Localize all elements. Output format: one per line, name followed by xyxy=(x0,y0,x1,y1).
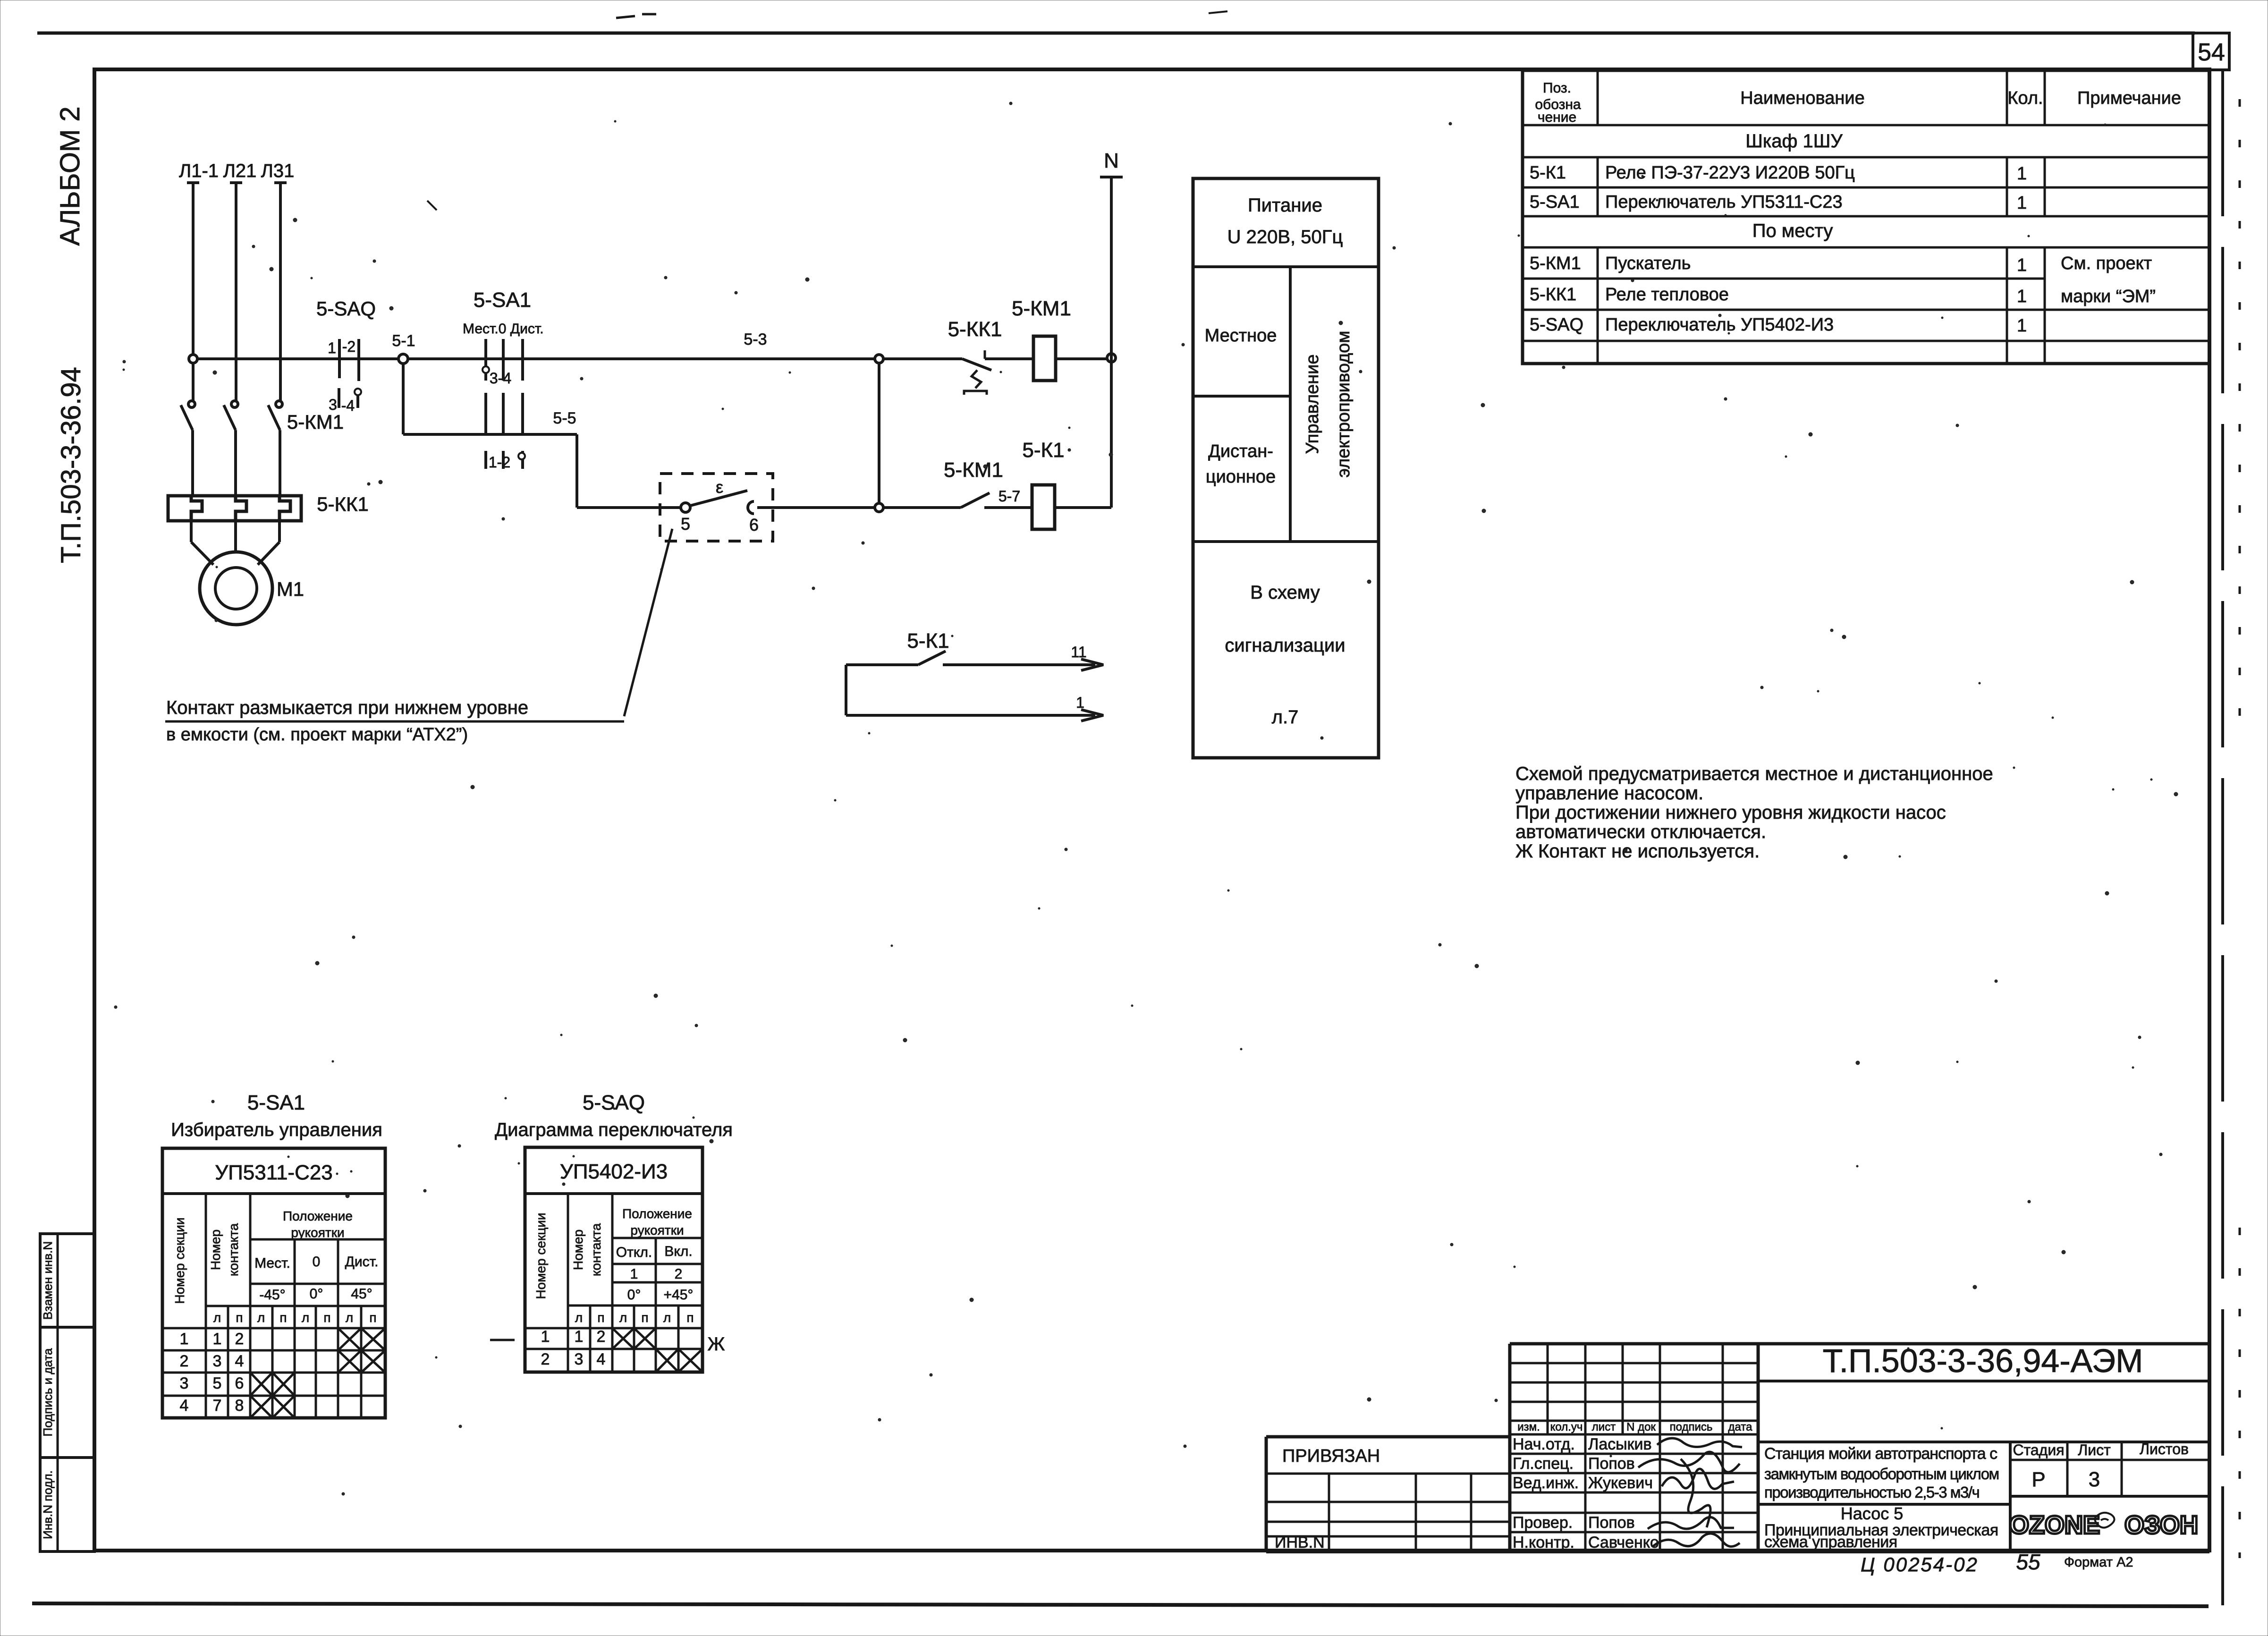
svg-text:л: л xyxy=(346,1310,353,1325)
svg-text:п: п xyxy=(323,1310,330,1325)
svg-text:Примечание: Примечание xyxy=(2077,88,2181,108)
arrow head 11 xyxy=(1081,659,1103,670)
svg-text:л: л xyxy=(575,1310,583,1325)
switch 5-SAQ contact 1-2 tick right xyxy=(357,339,360,381)
contactor 5-КМ1 blade Л1-1 xyxy=(181,405,193,430)
wire drop from node 5-1 xyxy=(402,364,405,434)
svg-text:N док: N док xyxy=(1626,1421,1656,1433)
svg-text:Подпись и дата: Подпись и дата xyxy=(41,1348,55,1437)
svg-text:Наименование: Наименование xyxy=(1740,88,1864,108)
svg-text:рукоятки: рукоятки xyxy=(291,1225,344,1240)
svg-text:6: 6 xyxy=(749,515,759,534)
svg-text:2: 2 xyxy=(235,1330,244,1348)
svg-text:Нач.отд.: Нач.отд. xyxy=(1513,1435,1575,1453)
arrow head 1 xyxy=(1081,710,1103,721)
logo scribble xyxy=(2095,1513,2114,1528)
svg-text:3: 3 xyxy=(2089,1468,2100,1491)
wire phase Л31 xyxy=(279,183,282,401)
svg-text:-45°: -45° xyxy=(259,1287,285,1303)
wire to 5-К1 contact xyxy=(846,663,918,666)
svg-text:п: п xyxy=(369,1310,376,1325)
svg-text:N: N xyxy=(1104,149,1119,172)
svg-text:1: 1 xyxy=(2017,193,2027,213)
svg-text:-2: -2 xyxy=(342,338,355,355)
svg-text:Гл.спец.: Гл.спец. xyxy=(1513,1455,1574,1473)
svg-text:1: 1 xyxy=(575,1328,584,1346)
svg-text:сигнализации: сигнализации xyxy=(1225,635,1345,656)
switch 5-SAQ contact 1-2 tick left xyxy=(338,339,341,378)
svg-text:1: 1 xyxy=(213,1330,222,1348)
stray scan mark xyxy=(616,16,635,18)
5-КК1 thermal release bracket xyxy=(964,391,987,395)
svg-text:автоматически отключается.: автоматически отключается. xyxy=(1515,822,1766,842)
svg-text:Пускатель: Пускатель xyxy=(1605,254,1691,273)
sheet top edge line xyxy=(37,32,2195,35)
svg-text:1: 1 xyxy=(2017,316,2027,336)
svg-text:Н.контр.: Н.контр. xyxy=(1513,1534,1574,1551)
svg-text:2: 2 xyxy=(675,1266,683,1282)
svg-text:Листов: Листов xyxy=(2140,1441,2189,1458)
5-SA1 section 1-2 tick upper xyxy=(521,393,524,435)
svg-text:5-SAQ: 5-SAQ xyxy=(316,297,376,320)
svg-text:п: п xyxy=(236,1310,243,1325)
5-КК1 NC blade xyxy=(962,359,991,370)
svg-text:5-SAQ: 5-SAQ xyxy=(583,1091,645,1114)
svg-text:Дист.: Дист. xyxy=(345,1254,379,1270)
svg-text:М1: М1 xyxy=(277,578,304,600)
svg-text:п: п xyxy=(686,1310,694,1325)
svg-text:1: 1 xyxy=(180,1330,189,1348)
svg-text:в емкости (см. проект марки “А: в емкости (см. проект марки “АТХ2”) xyxy=(166,725,468,745)
contactor 5-КМ1 blade Л31 xyxy=(268,405,280,430)
wire Л21 to thermal relay xyxy=(234,430,237,496)
svg-text:5-5: 5-5 xyxy=(553,409,576,427)
switch 5-SAQ contact 3-4 tick left xyxy=(338,388,340,408)
heater element xyxy=(236,496,246,521)
svg-text:л.7: л.7 xyxy=(1272,707,1299,728)
svg-text:Провер.: Провер. xyxy=(1513,1514,1573,1532)
svg-text:4: 4 xyxy=(235,1352,244,1370)
svg-text:рукоятки: рукоятки xyxy=(630,1223,684,1238)
svg-text:УП5311-С23: УП5311-С23 xyxy=(215,1161,333,1184)
level contact blade xyxy=(690,491,747,506)
svg-text:Положение: Положение xyxy=(283,1209,353,1223)
contact pivot Л31 xyxy=(276,401,282,407)
junction node line2 xyxy=(875,503,883,512)
svg-text:7: 7 xyxy=(213,1397,222,1415)
svg-text:U 220В, 50Гц: U 220В, 50Гц xyxy=(1227,227,1343,247)
svg-text:Вкл.: Вкл. xyxy=(664,1244,692,1259)
svg-text:Попов: Попов xyxy=(1588,1514,1635,1532)
wire Л31 to thermal relay xyxy=(279,430,281,496)
svg-text:л: л xyxy=(213,1310,221,1325)
svg-text:5-КК1: 5-КК1 xyxy=(1530,285,1576,305)
svg-text:2: 2 xyxy=(180,1352,189,1370)
svg-text:схема управления: схема управления xyxy=(1764,1533,1897,1551)
svg-text:Номер: Номер xyxy=(208,1229,223,1270)
svg-text:Насос 5: Насос 5 xyxy=(1841,1504,1903,1523)
5-SA1 section 1-2 tick lower xyxy=(502,451,505,469)
contactor 5-КМ1 blade Л21 xyxy=(224,405,236,430)
thermal relay 5-КК1 heater box xyxy=(168,496,301,521)
svg-text:5-К1: 5-К1 xyxy=(907,629,949,653)
page number box xyxy=(2193,33,2229,70)
svg-text:п: п xyxy=(641,1310,648,1325)
svg-text:0°: 0° xyxy=(627,1287,641,1303)
svg-text:5-7: 5-7 xyxy=(999,488,1020,505)
dash left of table xyxy=(490,1339,515,1341)
svg-text:Лист: Лист xyxy=(2078,1441,2111,1458)
switch 5-SAQ contact 3-4 tick right xyxy=(356,388,359,408)
svg-text:5-КМ1: 5-КМ1 xyxy=(287,411,344,433)
svg-text:45°: 45° xyxy=(351,1286,372,1302)
svg-text:Вед.инж.: Вед.инж. xyxy=(1513,1474,1579,1492)
svg-text:0°: 0° xyxy=(310,1286,323,1302)
5-SAQ contact 3-4 marker circle xyxy=(355,389,361,395)
svg-text:ИНВ.N: ИНВ.N xyxy=(1275,1534,1325,1551)
svg-text:электроприводом: электроприводом xyxy=(1334,331,1354,477)
sheet bottom edge line xyxy=(32,1603,2209,1606)
svg-text:54: 54 xyxy=(2198,39,2225,66)
svg-text:4: 4 xyxy=(180,1397,189,1415)
stray scan mark xyxy=(642,13,656,16)
svg-text:Т.П.503-3-36.94: Т.П.503-3-36.94 xyxy=(56,367,86,563)
motor M1 outer circle xyxy=(200,552,272,625)
wire node to 5-КМ1 contact xyxy=(883,506,961,509)
right page edge broken line xyxy=(2221,70,2224,1605)
svg-text:Инв.N подл.: Инв.N подл. xyxy=(41,1470,55,1539)
svg-text:л: л xyxy=(302,1310,309,1325)
svg-text:Ж: Ж xyxy=(708,1334,725,1355)
svg-text:4: 4 xyxy=(597,1350,606,1368)
svg-text:Избиратель управления: Избиратель управления xyxy=(171,1119,382,1140)
svg-text:OZONE: OZONE xyxy=(2009,1511,2100,1539)
wire phase Л1-1 xyxy=(192,183,195,401)
svg-text:0: 0 xyxy=(313,1254,321,1270)
svg-text:Номер: Номер xyxy=(571,1229,585,1270)
svg-text:5-КК1: 5-КК1 xyxy=(317,493,369,515)
svg-text:Формат А2: Формат А2 xyxy=(2064,1555,2133,1570)
svg-text:ционное: ционное xyxy=(1206,467,1276,487)
component table xyxy=(1523,70,2209,364)
svg-text:л: л xyxy=(257,1310,265,1325)
svg-text:Шкаф 1ШУ: Шкаф 1ШУ xyxy=(1745,131,1843,152)
phase Л1-1 terminal bar xyxy=(187,181,199,184)
heater element xyxy=(191,496,202,521)
coil 5-КМ1 xyxy=(1033,336,1056,381)
svg-text:АЛЬБОМ 2: АЛЬБОМ 2 xyxy=(55,106,85,246)
wire 5-5 to level contact xyxy=(577,506,681,509)
svg-text:Попов: Попов xyxy=(1588,1455,1635,1473)
contact pivot Л1-1 xyxy=(188,401,195,407)
wire 5-К1 to arrow 11 xyxy=(943,663,1095,666)
leader line to note xyxy=(624,529,672,716)
svg-text:По месту: По месту xyxy=(1752,220,1833,241)
wire level contact to node xyxy=(757,506,875,509)
wire 5-5 vertical xyxy=(575,434,578,508)
svg-text:3: 3 xyxy=(180,1374,189,1392)
svg-text:ПРИВЯЗАН: ПРИВЯЗАН xyxy=(1282,1446,1380,1466)
svg-text:контакта: контакта xyxy=(589,1223,603,1276)
svg-text:2: 2 xyxy=(541,1350,550,1368)
node tap on phase Л1-1 xyxy=(189,355,197,363)
wire coil 5-К1 to N xyxy=(1055,506,1111,509)
scan speckles xyxy=(1359,370,1362,373)
5-SA1 1-2 closed marker xyxy=(518,453,525,459)
svg-text:Диаграмма переключателя: Диаграмма переключателя xyxy=(495,1119,733,1140)
X marks 5-SAQ xyxy=(612,1328,634,1349)
svg-text:Переключатель УП5402-И3: Переключатель УП5402-И3 xyxy=(1605,315,1834,335)
5-SA1 section 1-2 tick upper xyxy=(484,393,487,435)
wire to motor middle xyxy=(234,521,237,552)
right page edge dotted line xyxy=(2239,99,2241,727)
svg-text:п: п xyxy=(597,1310,604,1325)
svg-text:Жукевич: Жукевич xyxy=(1588,1474,1653,1492)
wire N xyxy=(1110,177,1113,508)
svg-text:лист: лист xyxy=(1592,1421,1616,1433)
right page edge dotted line lower xyxy=(2239,1228,2241,1558)
5-SA1 section 3-4 tick xyxy=(521,339,524,381)
wire phase Л21 xyxy=(235,183,237,401)
5-SA1 section 1-2 tick upper xyxy=(502,393,505,435)
svg-text:Номер секции: Номер секции xyxy=(533,1212,548,1299)
node on N line xyxy=(1107,354,1116,362)
svg-text:1: 1 xyxy=(2017,164,2027,184)
5-КМ1 NO blade xyxy=(961,493,990,508)
wire junction vertical xyxy=(878,363,880,503)
svg-text:8: 8 xyxy=(235,1397,244,1415)
svg-text:5-SA1: 5-SA1 xyxy=(247,1091,305,1114)
svg-text:Откл.: Откл. xyxy=(616,1245,652,1260)
svg-text:2: 2 xyxy=(597,1328,606,1346)
svg-text:Поз.: Поз. xyxy=(1543,80,1571,96)
level contact pivot xyxy=(681,503,690,512)
level switch dashed box xyxy=(660,474,773,541)
svg-text:Положение: Положение xyxy=(622,1206,692,1221)
svg-text:5-SA1: 5-SA1 xyxy=(474,288,531,312)
svg-text:Реле ПЭ-37-22У3 И220В 50Гц: Реле ПЭ-37-22У3 И220В 50Гц xyxy=(1605,163,1855,183)
svg-text:Л31: Л31 xyxy=(261,161,295,181)
svg-text:Л1-1: Л1-1 xyxy=(179,161,219,181)
svg-text:6: 6 xyxy=(235,1374,244,1392)
title block left section xyxy=(1266,1435,1510,1439)
svg-text:5-КМ1: 5-КМ1 xyxy=(944,458,1003,482)
svg-text:Мест.0 Дист.: Мест.0 Дист. xyxy=(463,321,544,337)
svg-text:1: 1 xyxy=(2017,287,2027,306)
svg-text:5-SA1: 5-SA1 xyxy=(1530,192,1580,212)
svg-text:5-К1: 5-К1 xyxy=(1530,163,1566,183)
wire vertical xyxy=(845,665,847,715)
svg-text:3-4: 3-4 xyxy=(490,370,511,387)
left margin stamp boxes xyxy=(40,1234,94,1551)
note underline xyxy=(165,721,624,723)
svg-text:Питание: Питание xyxy=(1248,195,1322,216)
svg-text:чение: чение xyxy=(1538,110,1576,125)
svg-text:Управление: Управление xyxy=(1303,354,1322,454)
svg-text:1: 1 xyxy=(2017,255,2027,275)
svg-text:УП5402-И3: УП5402-И3 xyxy=(560,1160,668,1183)
svg-text:Стадия: Стадия xyxy=(2013,1441,2064,1458)
svg-text:11: 11 xyxy=(1071,644,1086,661)
svg-text:подпись: подпись xyxy=(1670,1421,1713,1433)
junction node line1 xyxy=(875,355,883,363)
svg-text:производительностью 2,5-3 м3/ч: производительностью 2,5-3 м3/ч xyxy=(1764,1483,1979,1501)
signal destination box xyxy=(1193,178,1379,758)
5-КК1 fixed contact tick xyxy=(984,350,986,359)
svg-text:управление насосом.: управление насосом. xyxy=(1515,783,1703,804)
svg-text:5: 5 xyxy=(213,1374,222,1392)
svg-text:5: 5 xyxy=(681,514,690,534)
5-SA1 section 3-4 tick xyxy=(502,339,505,381)
svg-text:Взамен инв.N: Взамен инв.N xyxy=(41,1241,55,1320)
phase Л31 terminal bar xyxy=(274,181,287,184)
svg-text:замкнутым водооборотным циклом: замкнутым водооборотным циклом xyxy=(1764,1465,1999,1483)
svg-text:Контакт размыкается при нижнем: Контакт размыкается при нижнем уровне xyxy=(166,697,528,718)
wire control line to 5-3 xyxy=(197,357,875,360)
svg-text:+45°: +45° xyxy=(664,1287,694,1303)
svg-text:Реле тепловое: Реле тепловое xyxy=(1605,285,1729,305)
svg-text:ОЗОН: ОЗОН xyxy=(2124,1511,2198,1539)
wire to 5-КК1 contact xyxy=(883,357,962,360)
motor M1 inner circle xyxy=(215,568,257,609)
wire to motor left xyxy=(190,521,193,542)
5-КК1 thermal release link xyxy=(972,370,981,388)
svg-text:5-КМ1: 5-КМ1 xyxy=(1012,297,1071,320)
svg-text:5-К1: 5-К1 xyxy=(1022,439,1064,462)
svg-text:Т.П.503-3-36,94-АЭМ: Т.П.503-3-36,94-АЭМ xyxy=(1823,1342,2143,1379)
svg-text:1: 1 xyxy=(541,1328,550,1346)
svg-text:5-КМ1: 5-КМ1 xyxy=(1530,254,1581,273)
5-SA1 section 1-2 tick lower xyxy=(484,451,487,469)
5-SA1 3-4 closed marker xyxy=(482,366,489,373)
wire coil 5-КМ1 to N node xyxy=(1056,357,1107,360)
svg-text:5-SAQ: 5-SAQ xyxy=(1530,315,1583,335)
svg-text:Р: Р xyxy=(2031,1468,2045,1491)
svg-text:Номер секции: Номер секции xyxy=(172,1217,187,1304)
stray scan mark xyxy=(1209,11,1227,13)
svg-text:марки “ЭМ”: марки “ЭМ” xyxy=(2061,287,2156,306)
wire 5-5 horizontal xyxy=(403,433,577,436)
svg-text:п: п xyxy=(279,1310,287,1325)
svg-text:Савченко: Савченко xyxy=(1588,1534,1659,1551)
phase Л21 terminal bar xyxy=(230,181,242,184)
stray ink dot xyxy=(427,201,437,210)
svg-text:Дистан-: Дистан- xyxy=(1208,441,1273,461)
svg-text:Ж Контакт не используется.: Ж Контакт не используется. xyxy=(1515,841,1760,862)
svg-text:В схему: В схему xyxy=(1250,582,1320,603)
svg-text:л: л xyxy=(663,1310,671,1325)
wire to arrow 1 xyxy=(846,714,1095,717)
svg-text:Схемой предусматривается местн: Схемой предусматривается местное и диста… xyxy=(1515,763,1993,784)
svg-text:3: 3 xyxy=(213,1352,222,1370)
svg-text:1-2: 1-2 xyxy=(489,454,510,471)
title block right section xyxy=(1758,1342,2209,1346)
wire 5-КМ1 contact to coil 5-К1 xyxy=(984,506,1032,509)
coil 5-К1 xyxy=(1032,485,1055,529)
svg-text:5-КК1: 5-КК1 xyxy=(948,318,1002,341)
svg-text:При достижении нижнего уровня: При достижении нижнего уровня жидкости н… xyxy=(1515,802,1946,823)
svg-text:5-1: 5-1 xyxy=(392,332,415,350)
svg-text:Ц 00254-02: Ц 00254-02 xyxy=(1861,1553,1979,1576)
svg-text:1: 1 xyxy=(328,339,336,356)
svg-text:1: 1 xyxy=(630,1266,638,1282)
svg-text:дата: дата xyxy=(1728,1421,1753,1433)
svg-text:ε: ε xyxy=(716,477,723,497)
svg-text:кол.уч: кол.уч xyxy=(1550,1421,1583,1433)
signatures xyxy=(1657,1438,1742,1447)
svg-text:См. проект: См. проект xyxy=(2061,254,2152,273)
svg-text:Переключатель УП5311-С23: Переключатель УП5311-С23 xyxy=(1605,192,1843,212)
svg-text:3: 3 xyxy=(329,396,337,413)
5-SA1 section 3-4 tick xyxy=(484,339,487,381)
svg-text:3: 3 xyxy=(575,1350,584,1368)
5-SA1 section 1-2 tick lower xyxy=(521,451,524,469)
svg-text:Мест.: Мест. xyxy=(254,1255,290,1271)
X marks 5-SA1 xyxy=(338,1328,361,1350)
level contact fixed terminal xyxy=(748,501,754,514)
svg-text:л: л xyxy=(619,1310,627,1325)
svg-text:-4: -4 xyxy=(341,397,355,414)
svg-text:55: 55 xyxy=(2016,1550,2040,1574)
wire 5-КК1 to coil 5-КМ1 xyxy=(985,357,1033,360)
svg-text:Кол.: Кол. xyxy=(2007,88,2043,108)
svg-text:изм.: изм. xyxy=(1517,1421,1540,1433)
svg-text:Местное: Местное xyxy=(1205,326,1277,346)
title block xyxy=(1508,1344,1512,1551)
svg-text:Станция мойки автотранспорта с: Станция мойки автотранспорта с xyxy=(1764,1445,1997,1463)
node 5-1 xyxy=(398,354,408,364)
svg-text:контакта: контакта xyxy=(226,1223,241,1276)
svg-text:1: 1 xyxy=(1076,694,1084,711)
heater element xyxy=(279,496,290,521)
svg-text:5-3: 5-3 xyxy=(744,331,767,348)
wire to motor right xyxy=(278,521,281,542)
wire Л1-1 to thermal relay xyxy=(191,430,194,496)
5-К1 NO blade xyxy=(918,651,946,665)
contact pivot Л21 xyxy=(231,401,238,407)
svg-text:Л21: Л21 xyxy=(223,161,257,181)
svg-text:Ласыкив: Ласыкив xyxy=(1588,1435,1652,1453)
N terminal bar xyxy=(1100,176,1123,178)
